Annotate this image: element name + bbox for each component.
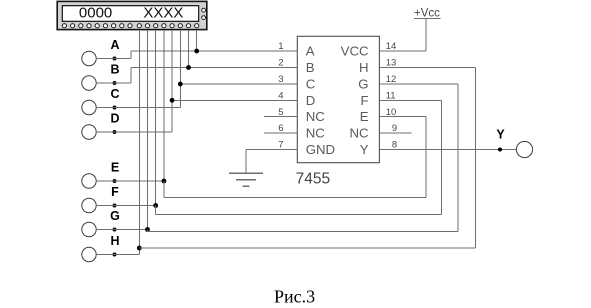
wire C riser xyxy=(179,84,181,108)
node dot G xyxy=(113,228,117,232)
wire display-2 to node G xyxy=(147,30,149,230)
svg-text:A: A xyxy=(110,38,119,52)
wire pin 11 horizontal xyxy=(379,99,441,101)
terminal connector G xyxy=(82,222,96,236)
display X1 screen xyxy=(62,6,198,22)
svg-text:E: E xyxy=(111,161,119,175)
junction D / display xyxy=(170,98,175,103)
junction B / display xyxy=(186,65,191,70)
junction H / display xyxy=(137,246,142,251)
svg-text:3: 3 xyxy=(278,74,283,85)
node dot F xyxy=(113,204,117,208)
wire D to pin 4 xyxy=(172,99,297,101)
wire pin 10 bracket vertical xyxy=(425,117,427,198)
wire pin 9 NC stub xyxy=(379,132,411,134)
terminal connector H xyxy=(82,247,96,261)
wire pin 10 horizontal xyxy=(379,116,426,118)
wire pin 14 to Vcc xyxy=(379,50,426,52)
wire display-4 to node E xyxy=(163,30,165,181)
wire H terminal stub xyxy=(96,254,139,256)
wire E jog down xyxy=(163,181,165,198)
ground symbol xyxy=(229,172,263,174)
svg-text:GND: GND xyxy=(306,142,335,157)
wire display-3 to node F xyxy=(155,30,157,206)
wire F terminal stub xyxy=(96,205,156,207)
display X1 outer body xyxy=(57,1,207,29)
svg-text:H: H xyxy=(359,60,369,75)
wire B to pin 2 xyxy=(131,67,297,69)
terminal connector B xyxy=(82,76,96,90)
terminal connector Y xyxy=(516,141,532,157)
terminal connector C xyxy=(82,100,96,114)
wire display-8 to node A xyxy=(196,30,198,51)
wire B riser xyxy=(130,68,132,84)
svg-text:12: 12 xyxy=(386,74,397,85)
svg-text:G: G xyxy=(358,77,368,92)
display right pin circles xyxy=(137,24,199,28)
terminal connector F xyxy=(82,198,96,212)
svg-text:A: A xyxy=(306,44,315,59)
svg-text:G: G xyxy=(110,209,120,223)
node dot C xyxy=(113,106,117,110)
svg-text:7455: 7455 xyxy=(296,171,330,188)
wire pin 6 NC stub xyxy=(264,132,297,134)
svg-text:Рис.3: Рис.3 xyxy=(274,287,315,307)
wire A riser xyxy=(130,51,132,59)
wire display-6 to node C xyxy=(179,30,181,84)
wire E terminal stub xyxy=(96,180,164,182)
wire display-1 to node H xyxy=(138,30,140,248)
svg-text:D: D xyxy=(306,93,316,108)
svg-text:E: E xyxy=(360,109,369,124)
display side circles xyxy=(202,8,206,19)
junction C / display xyxy=(178,82,183,87)
wire B terminal stub xyxy=(96,82,131,84)
wire pin 5 NC stub xyxy=(264,116,297,118)
svg-text:NC: NC xyxy=(306,126,326,141)
wire display-5 to node D xyxy=(171,30,173,101)
svg-text:F: F xyxy=(360,93,368,108)
svg-text:Y: Y xyxy=(496,127,505,141)
display left pin circles xyxy=(62,24,132,28)
node dot E xyxy=(113,179,117,183)
svg-text:B: B xyxy=(110,63,119,77)
terminal connector D xyxy=(82,125,96,139)
svg-text:0000: 0000 xyxy=(79,5,112,22)
wire H run to pin 13 bracket xyxy=(139,247,475,249)
wire A to pin 1 xyxy=(131,50,297,52)
wire F run to pin 11 bracket xyxy=(156,214,442,216)
svg-text:NC: NC xyxy=(306,109,326,124)
svg-text:H: H xyxy=(110,234,119,248)
wire F jog down xyxy=(155,206,157,215)
svg-text:C: C xyxy=(110,87,119,101)
svg-text:11: 11 xyxy=(386,91,396,102)
junction G / display xyxy=(145,227,150,232)
wire pin 12 horizontal xyxy=(379,83,458,85)
svg-text:VCC: VCC xyxy=(341,44,369,59)
wire H jog up xyxy=(138,248,140,255)
svg-text:+Vcc: +Vcc xyxy=(414,7,440,19)
svg-text:C: C xyxy=(306,77,316,92)
svg-text:D: D xyxy=(110,112,119,126)
svg-text:XXXX: XXXX xyxy=(143,5,183,22)
node dot B xyxy=(113,81,117,85)
wire C terminal stub xyxy=(96,107,180,109)
wire pin 7 to ground xyxy=(246,149,297,151)
wire A terminal stub xyxy=(96,58,131,60)
terminal connector E xyxy=(82,174,96,188)
wire G terminal stub xyxy=(96,229,147,231)
terminal connector A xyxy=(82,51,96,65)
wire C to pin 3 xyxy=(180,83,297,85)
wire pin 12 bracket vertical xyxy=(457,84,459,231)
svg-text:1: 1 xyxy=(278,41,283,52)
svg-text:B: B xyxy=(306,60,315,75)
svg-text:F: F xyxy=(111,185,119,199)
svg-text:Y: Y xyxy=(360,142,369,157)
svg-text:13: 13 xyxy=(386,58,397,69)
wire G run to pin 12 bracket xyxy=(148,230,459,232)
wire pin 8 to output Y xyxy=(379,149,516,151)
wire G jog down xyxy=(147,230,149,232)
junction F / display xyxy=(153,203,158,208)
wire D terminal stub xyxy=(96,131,172,133)
power +Vcc symbol xyxy=(414,17,441,19)
junction A / display xyxy=(194,49,199,54)
svg-text:4: 4 xyxy=(278,91,283,102)
wire E run to pin 10 bracket xyxy=(164,197,426,199)
svg-text:NC: NC xyxy=(349,126,369,141)
node dot A xyxy=(113,57,117,61)
node dot H xyxy=(113,253,117,257)
wire pin 11 bracket vertical xyxy=(441,100,443,214)
wire D riser xyxy=(171,100,173,132)
wire display-7 to node B xyxy=(188,30,190,68)
op IC U1 7455 body xyxy=(297,36,379,162)
svg-text:10: 10 xyxy=(386,107,397,118)
node dot Y xyxy=(498,148,502,152)
junction E / display xyxy=(162,179,167,184)
svg-text:2: 2 xyxy=(278,58,283,69)
wire pin 13 bracket vertical xyxy=(475,68,477,249)
node dot D xyxy=(113,130,117,134)
wire pin 13 horizontal xyxy=(379,67,475,69)
